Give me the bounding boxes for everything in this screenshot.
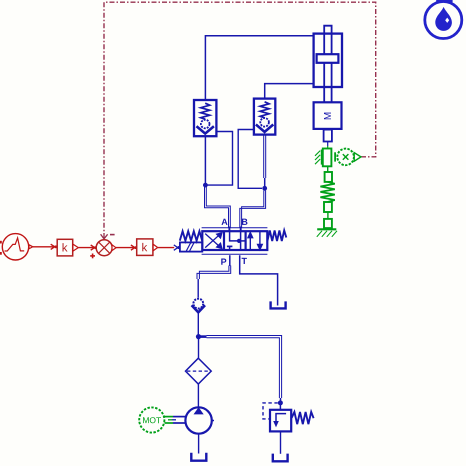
wire: left check valve pilot to junction A xyxy=(208,132,233,186)
position sensor X1 (green) xyxy=(315,149,361,167)
valve V1: body xyxy=(202,231,267,250)
wire: right check valve pilot to junction B xyxy=(238,130,262,189)
wire: feedback dash-dot loop from sensor to summer xyxy=(104,2,376,233)
wire: K1 to summer xyxy=(78,245,95,250)
relief valve RV1 xyxy=(270,410,291,432)
shaft: motor to pump xyxy=(165,417,174,423)
cylinder Z1 xyxy=(314,26,342,103)
svg-text:B: B xyxy=(241,217,248,227)
valve V1: proportional solenoid xyxy=(180,242,202,251)
wire: junction B to valve port B (double line) xyxy=(240,191,266,229)
valve V1: right spring xyxy=(267,230,286,241)
label: plus xyxy=(90,254,95,259)
wire: right check valve bottom to junction (double line) xyxy=(264,135,266,178)
valve V1: left spring xyxy=(180,231,202,241)
wire: left check valve bottom to junction xyxy=(204,136,206,183)
wire: valve P port down xyxy=(229,255,231,266)
wire: junction A to valve port A (double line) xyxy=(205,187,231,229)
wire: junction to relief valve (double line) xyxy=(199,335,207,338)
gain block K1 xyxy=(57,239,72,256)
wire: P elbow to check valve (double line) xyxy=(197,266,231,280)
tank T1 xyxy=(271,301,286,308)
gain block K2 xyxy=(137,239,153,256)
rod below mass xyxy=(324,130,332,142)
node: feedback arrowhead into summer xyxy=(101,233,108,239)
wire: left check valve top to cylinder cap port xyxy=(205,36,313,100)
svg-text:A: A xyxy=(221,217,228,227)
node: relief pilot junction xyxy=(278,400,283,405)
svg-text:k: k xyxy=(142,242,148,254)
check valve CV1 (left) xyxy=(194,100,216,136)
node: pump line junction xyxy=(196,334,201,339)
wire: summer to gain K2 xyxy=(116,245,135,250)
wire: pump to tank xyxy=(198,434,200,454)
wire: relief valve to tank xyxy=(280,431,282,453)
check valve CV3 (pump line) xyxy=(192,299,205,313)
wire: source to gain K1 xyxy=(33,244,55,249)
wire: right check valve top to cylinder rod port xyxy=(265,84,314,99)
svg-text:P: P xyxy=(221,257,227,267)
filter F1 xyxy=(186,358,212,384)
check valve CV2 (right) xyxy=(254,99,275,135)
pump P1 xyxy=(185,407,211,433)
wire: relief pilot (dashed) xyxy=(263,403,278,419)
motor M2 (green) xyxy=(139,407,164,432)
svg-text:M: M xyxy=(323,112,334,120)
wire: valve T port to tank xyxy=(240,255,278,305)
wire: junction down to filter xyxy=(198,339,200,358)
mass M1 xyxy=(314,102,342,129)
svg-text:k: k xyxy=(62,242,68,254)
svg-text:MOT: MOT xyxy=(142,415,161,425)
relief valve spring xyxy=(292,412,314,424)
valve V1: centre position xyxy=(227,231,245,249)
svg-text:T: T xyxy=(242,256,248,266)
node: junction B-side xyxy=(262,186,267,191)
ground anchor (green) xyxy=(317,229,337,237)
logo: water drop xyxy=(425,2,462,39)
tank T3 xyxy=(273,454,288,462)
valve V1: left position crossed arrows xyxy=(205,233,222,249)
wire: filter to pump xyxy=(197,384,199,407)
label: minus xyxy=(110,234,115,236)
node: junction A-side xyxy=(203,183,208,188)
signal source W1 xyxy=(2,234,28,260)
port: signal source output xyxy=(29,245,33,249)
valve V1: right position parallel arrows xyxy=(248,231,262,250)
valve V1: rails xyxy=(202,227,268,229)
wire: K2 to valve solenoid xyxy=(158,247,175,249)
tank T2 xyxy=(191,453,206,461)
summer U1 xyxy=(96,240,112,256)
spring-damper to ground (green) xyxy=(320,166,334,228)
